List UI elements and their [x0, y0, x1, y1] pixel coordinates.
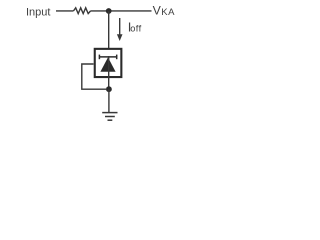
node junction at VKA — [106, 8, 112, 14]
resistor — [74, 8, 91, 14]
wire — [108, 56, 110, 89]
svg-text:Input: Input — [26, 6, 50, 18]
current arrow Ioff — [117, 18, 123, 41]
svg-text:KA: KA — [161, 7, 175, 18]
wire — [91, 10, 152, 12]
ground — [102, 113, 117, 121]
svg-text:off: off — [130, 24, 141, 34]
node label VKA — [153, 4, 176, 19]
wire (reference to anode loop) — [82, 64, 106, 89]
wire — [56, 10, 74, 12]
shunt regulator U1 (device under test) — [95, 49, 122, 77]
wire — [108, 89, 110, 112]
label Ioff — [128, 19, 142, 34]
node junction at anode — [106, 86, 112, 92]
wire — [108, 11, 110, 49]
